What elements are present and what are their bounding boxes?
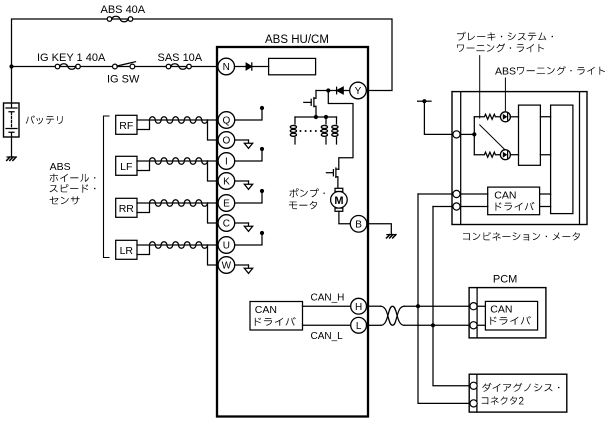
label sensor group label ホイール・ <box>50 174 96 182</box>
terminal W <box>218 257 235 274</box>
svg-text:O: O <box>223 136 231 147</box>
label CAN driver label ドライバ (PCM) <box>490 316 531 325</box>
label label ブレーキ・システム・ <box>457 32 553 41</box>
wire internal stub E <box>235 189 264 203</box>
bracket sensor group <box>104 116 110 258</box>
twisted pair <box>381 306 405 325</box>
CAN driver box (ABS) <box>250 302 303 331</box>
MOSFET Q2 (pump) <box>326 168 338 188</box>
PCM terminal H <box>470 303 477 310</box>
label pump label モータ <box>289 201 317 209</box>
label label ワーニング・ライト <box>457 43 544 52</box>
terminal Q <box>218 112 235 129</box>
label box label コンビネーション・メータ <box>463 232 580 241</box>
meter CAN terminal 2 <box>453 203 460 210</box>
svg-text:M: M <box>334 195 343 207</box>
lamp brake warning <box>500 112 510 122</box>
terminal H <box>351 298 367 314</box>
wire battery bus to ABS 40A and IG row <box>12 19 393 103</box>
label label ワーニング・ライト(ABS) <box>517 66 605 75</box>
wire split to lower terminal <box>208 203 218 223</box>
wire motor to B <box>339 211 350 224</box>
shield ground arrow O <box>235 140 253 148</box>
meter CAN terminal 1 <box>453 190 460 197</box>
sensor box RF <box>116 115 137 134</box>
wire CAN_L vertical (meter to diagnosis) <box>433 207 470 386</box>
resistor R2 <box>474 152 500 157</box>
svg-text:Q: Q <box>223 116 231 127</box>
diagnosis terminal 2 <box>470 400 477 407</box>
meter middle block <box>519 105 541 165</box>
wire split to lower terminal <box>208 161 218 181</box>
ground battery <box>7 157 16 160</box>
svg-text:CAN: CAN <box>490 304 512 316</box>
wire lamp1 to box <box>510 116 518 118</box>
wire CAN_H <box>303 305 351 307</box>
dotted continuation <box>300 130 322 132</box>
label pump label ポンプ・ <box>289 188 324 197</box>
terminal C <box>218 215 235 232</box>
node Y junction <box>326 88 330 92</box>
label box label ダイアグノシス・ <box>482 383 559 392</box>
PCM terminal L <box>470 322 477 329</box>
svg-text:SAS 10A: SAS 10A <box>158 52 203 64</box>
switch diagonal (bulb check) <box>480 125 505 149</box>
shield ground arrow C <box>235 223 253 231</box>
CAN driver box (meter) <box>488 187 540 215</box>
wires middle to right block <box>540 117 550 155</box>
wire RR pins <box>137 203 150 213</box>
meter right block <box>551 105 573 214</box>
shield ground arrow K <box>235 181 253 189</box>
svg-text:H: H <box>355 302 362 313</box>
svg-text:ABS: ABS <box>495 66 516 78</box>
terminal U <box>218 237 235 254</box>
wire LF pins <box>137 161 150 171</box>
svg-text:K: K <box>223 177 230 188</box>
svg-text:B: B <box>355 219 362 230</box>
fuse IG KEY 1 40A <box>55 64 80 70</box>
pointer brake warning light <box>479 56 481 118</box>
svg-text:E: E <box>223 199 230 210</box>
wire IG row <box>12 66 219 68</box>
svg-text:C: C <box>223 219 230 230</box>
terminal I <box>218 153 235 170</box>
wire mosfet drain to Y node <box>316 90 328 92</box>
svg-text:LR: LR <box>120 245 134 257</box>
wire split to lower terminal <box>208 245 218 265</box>
svg-text:ABS HU/CM: ABS HU/CM <box>265 34 329 46</box>
node bus-coil2 <box>324 115 328 119</box>
terminal K <box>218 173 235 190</box>
ABS HU/CM box <box>217 47 368 417</box>
twisted pair coil RF <box>150 117 218 124</box>
wire meter power feed <box>418 101 453 134</box>
label sensor group label センサ <box>50 196 80 204</box>
wires CAN driver to right block <box>540 194 551 207</box>
node CAN_L tap <box>431 323 435 327</box>
node feed <box>422 99 426 103</box>
svg-text:Y: Y <box>355 86 362 97</box>
relay block (unlabeled rectangle) <box>269 58 316 74</box>
wire pump feed <box>328 91 353 170</box>
terminal E <box>218 195 235 212</box>
terminal B <box>350 216 367 233</box>
svg-text:RR: RR <box>119 203 135 215</box>
label sensor group label スピード・ <box>50 184 96 192</box>
wire to lamp node <box>460 133 474 135</box>
svg-text:I: I <box>225 157 228 168</box>
twisted pair coil LR <box>150 242 218 249</box>
terminal L <box>351 317 367 333</box>
solenoid coil L2 <box>321 117 327 144</box>
fuse SAS 10A <box>166 64 191 70</box>
diagnosis terminal 1 <box>470 382 477 389</box>
solenoid coil L3 <box>332 117 338 144</box>
label CAN driver label ドライバ (meter) <box>496 202 535 211</box>
terminal O <box>218 132 235 149</box>
wire RF pins <box>137 120 150 130</box>
wire meter CAN terminals <box>418 194 453 207</box>
wire H out <box>367 305 381 307</box>
svg-text:IG KEY 1 40A: IG KEY 1 40A <box>37 52 106 64</box>
diode D1 <box>246 63 268 70</box>
wires PCM terminals to CAN driver <box>477 306 485 325</box>
wire N to diode <box>235 66 247 68</box>
svg-text:ABS 40A: ABS 40A <box>101 4 146 16</box>
switch IG SW <box>113 62 136 69</box>
PCM box <box>469 288 546 338</box>
wire B to ground <box>367 224 391 235</box>
label CAN driver label ドライバ (ABS) <box>255 317 296 326</box>
svg-text:CAN_L: CAN_L <box>311 331 344 342</box>
label battery label バッテリ <box>26 115 63 124</box>
lamp ABS warning <box>500 150 510 160</box>
svg-text:RF: RF <box>119 120 133 132</box>
pointer ABS warning light <box>504 78 506 111</box>
wire valve bus <box>295 116 337 118</box>
MOSFET Q1 (valve) <box>304 91 316 118</box>
terminal N <box>218 58 235 75</box>
wire CAN_L <box>303 324 351 326</box>
sensor box LR <box>116 240 137 259</box>
diagnosis connector box <box>469 374 567 412</box>
twisted pair coil RR <box>150 200 218 207</box>
wire internal stub I <box>235 147 264 161</box>
ground B <box>387 235 396 238</box>
node bus-mosfet <box>314 115 318 119</box>
wire CAN_H vertical (meter to diagnosis) <box>418 194 470 403</box>
node lamp split <box>472 132 476 136</box>
wire lamp branch vertical <box>473 117 475 155</box>
node battery junction <box>9 64 13 68</box>
label box label コネクタ2 <box>482 396 524 404</box>
sensor box LF <box>116 156 137 175</box>
svg-text:PCM: PCM <box>493 274 517 286</box>
svg-text:CAN: CAN <box>255 304 277 316</box>
wire LR pins <box>137 245 150 255</box>
combination meter box <box>452 92 587 225</box>
wire internal stub U <box>235 231 264 245</box>
svg-text:IG SW: IG SW <box>107 74 140 86</box>
svg-text:CAN: CAN <box>494 189 516 201</box>
solenoid coil L1 <box>290 117 296 144</box>
battery <box>4 103 20 157</box>
svg-text:W: W <box>222 261 232 272</box>
wire lamp2 to box <box>510 154 518 156</box>
wire CAN_L to PCM <box>404 324 470 326</box>
fuse ABS 40A <box>107 16 133 22</box>
wire split to lower terminal <box>208 120 218 140</box>
wire L out <box>367 324 381 326</box>
node CAN_H tap <box>416 304 420 308</box>
svg-text:L: L <box>356 321 362 332</box>
sensor box RR <box>116 198 137 217</box>
svg-text:U: U <box>223 241 230 252</box>
pump motor M <box>331 188 348 211</box>
meter terminal (lamp feed) <box>453 131 460 138</box>
diode D2 <box>328 87 350 94</box>
shield ground arrow W <box>235 265 253 273</box>
svg-text:LF: LF <box>120 161 132 173</box>
twisted pair coil LF <box>150 158 218 165</box>
resistor R1 <box>474 114 500 119</box>
wire CAN_H to PCM <box>404 305 470 307</box>
CAN driver box (PCM) <box>485 301 537 330</box>
wire internal stub Q <box>235 106 264 120</box>
wires terminals to CAN driver (meter) <box>460 194 488 207</box>
svg-text:CAN_H: CAN_H <box>311 293 345 304</box>
svg-text:N: N <box>223 62 230 73</box>
svg-text:ABS: ABS <box>50 161 71 173</box>
terminal Y <box>350 82 367 99</box>
